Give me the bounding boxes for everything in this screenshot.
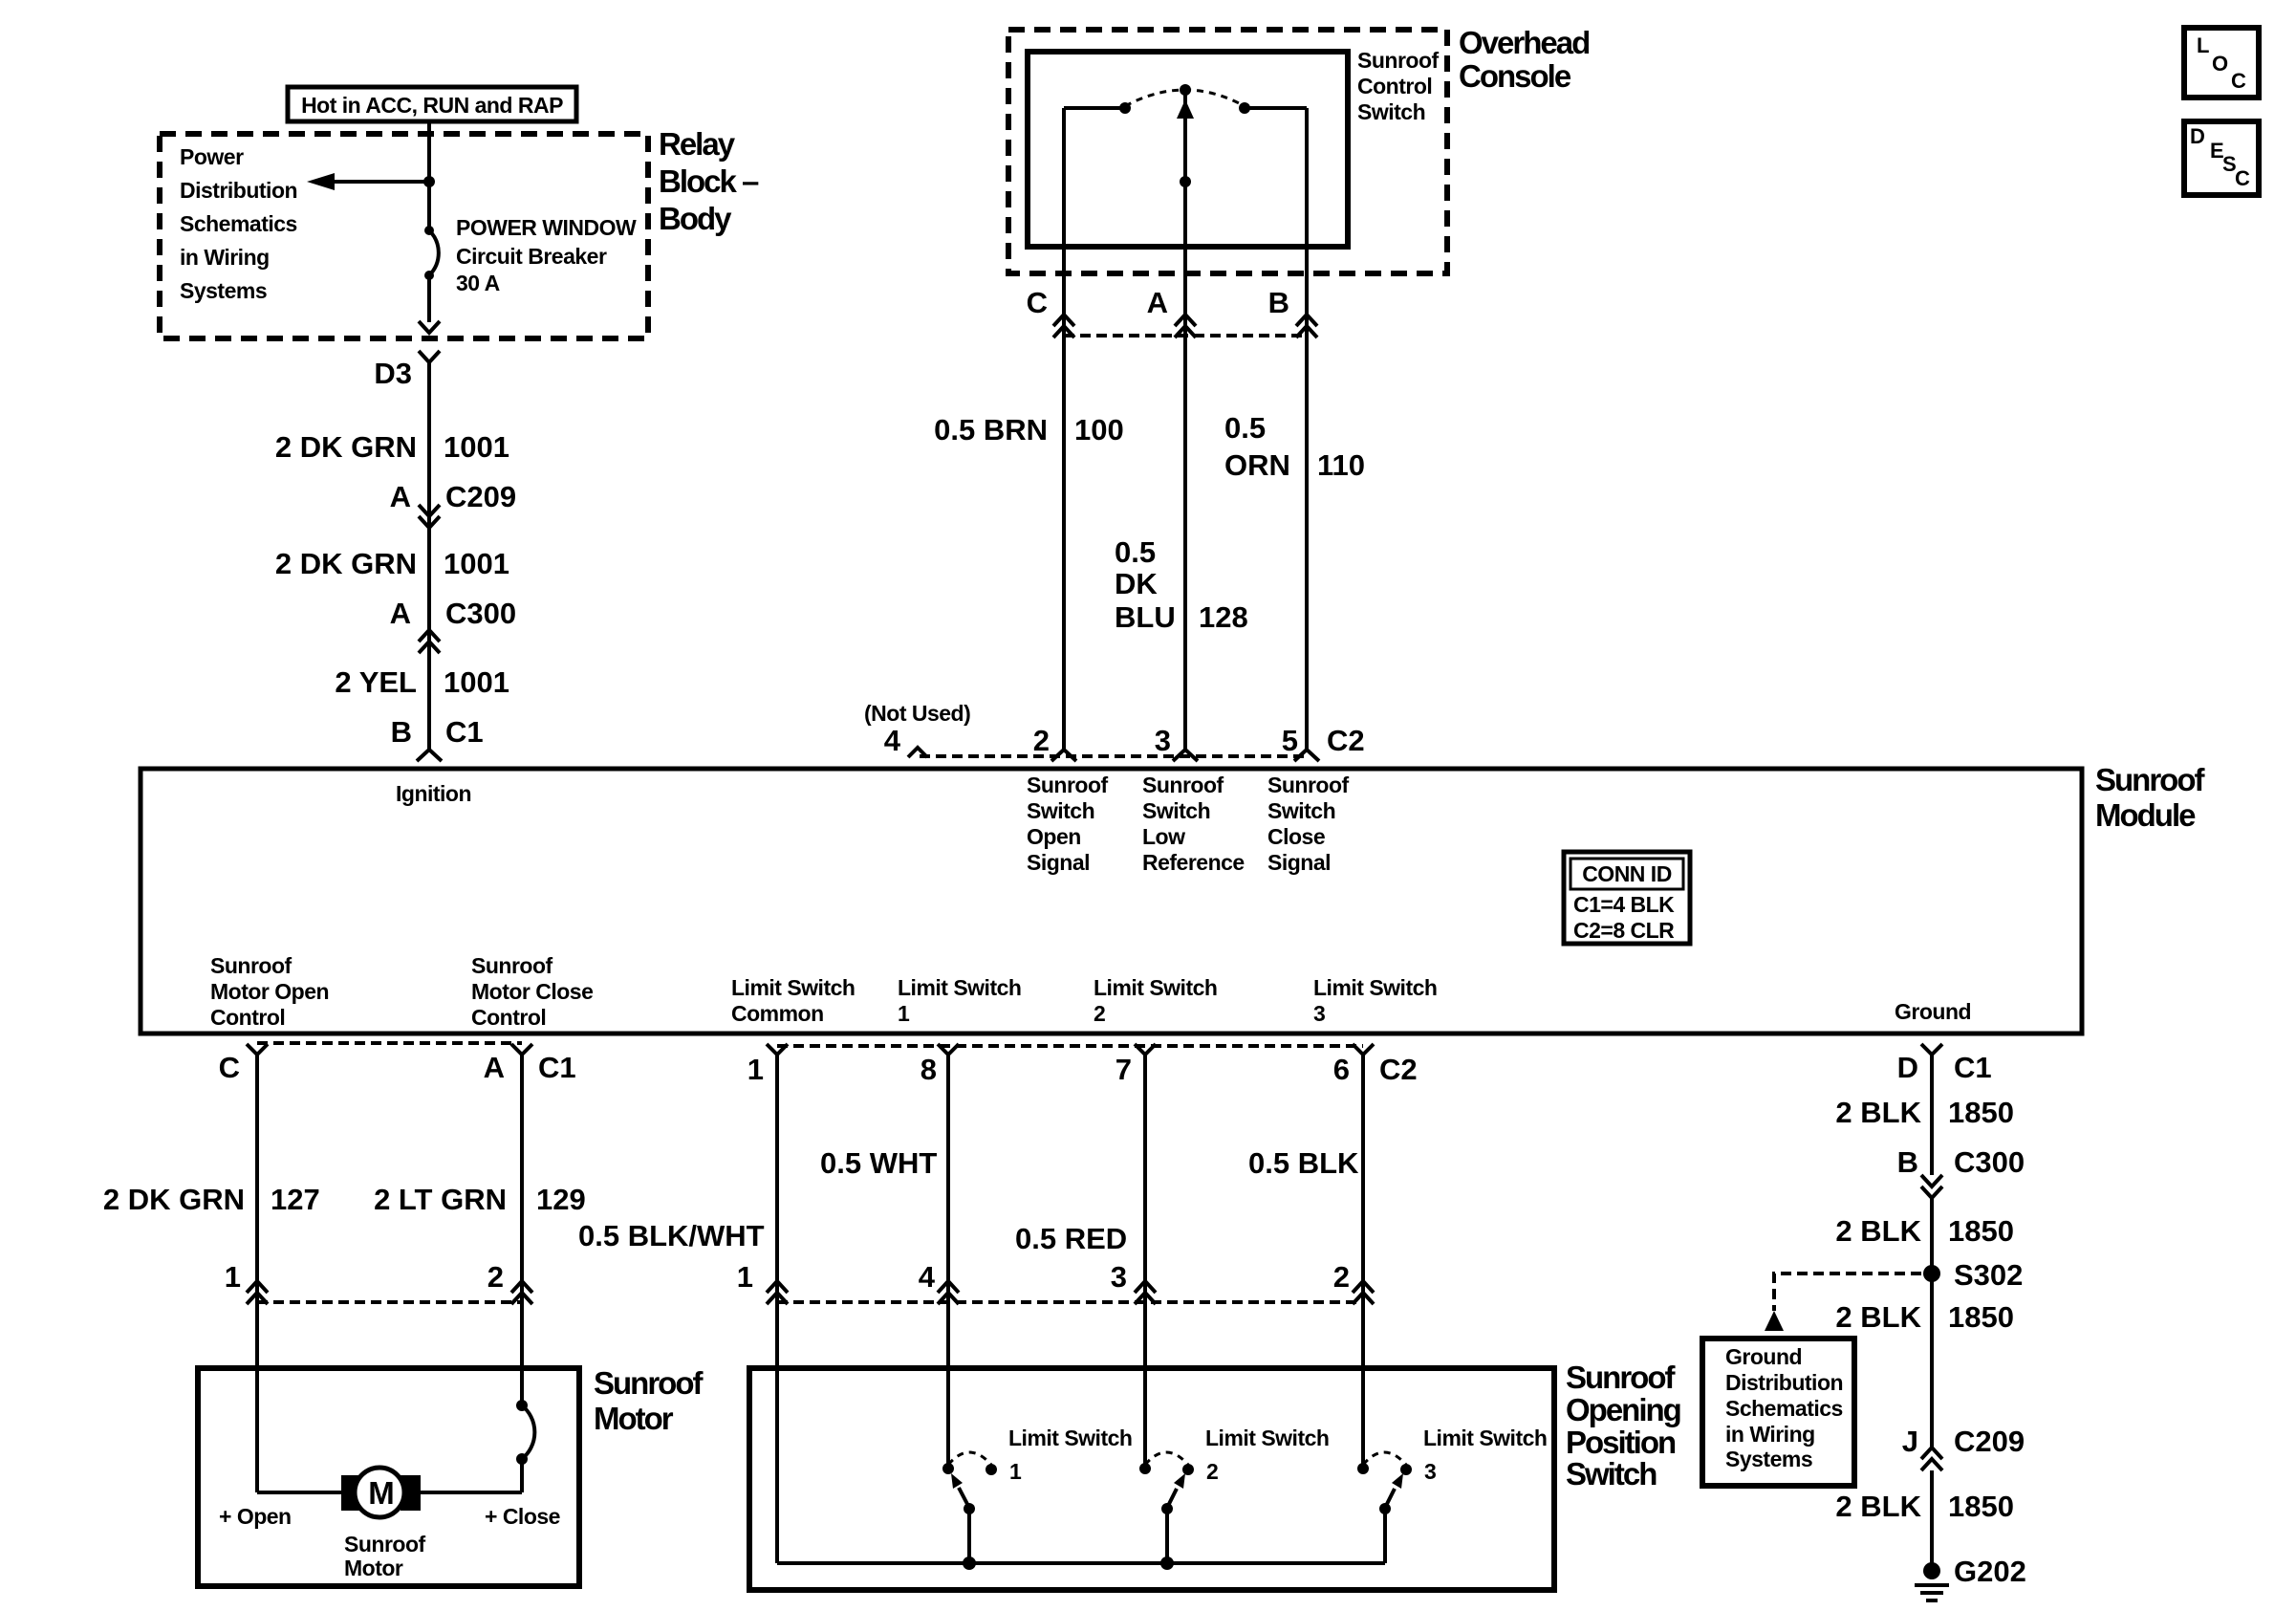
switch wiper dot (1180, 176, 1191, 187)
svg-text:Relay: Relay (659, 126, 736, 162)
svg-text:ORN: ORN (1224, 448, 1290, 482)
motor connector dashed line (257, 1300, 522, 1304)
svg-text:1001: 1001 (444, 430, 509, 464)
svg-text:C1: C1 (445, 715, 484, 749)
svg-text:Sunroof: Sunroof (1027, 773, 1108, 797)
svg-text:POWER WINDOW: POWER WINDOW (456, 215, 637, 240)
svg-text:1850: 1850 (1948, 1300, 2014, 1334)
CONN ID table (1564, 852, 1690, 944)
svg-text:Sunroof: Sunroof (344, 1532, 425, 1557)
svg-text:2: 2 (1333, 1260, 1350, 1294)
switch contact dot right (1239, 102, 1250, 114)
sunroof module box (141, 769, 2082, 1034)
connector chevron at relay box exit (419, 321, 440, 333)
svg-text:3: 3 (1313, 1001, 1325, 1026)
module pin D fork (1921, 1044, 1942, 1055)
svg-text:C209: C209 (1954, 1425, 2025, 1458)
svg-text:Reference: Reference (1142, 850, 1245, 875)
node junction on feed wire (423, 176, 435, 187)
motor feed wire right (416, 1491, 522, 1494)
svg-text:C2: C2 (1379, 1053, 1418, 1086)
svg-text:Motor Open: Motor Open (210, 979, 329, 1004)
svg-text:S302: S302 (1954, 1258, 2023, 1292)
svg-text:CONN ID: CONN ID (1582, 861, 1672, 886)
svg-text:2: 2 (1033, 724, 1050, 757)
ground wire segment 3 (1930, 1470, 1934, 1571)
svg-text:Ground: Ground (1895, 999, 1971, 1024)
svg-text:Open: Open (1027, 824, 1081, 849)
LOC legend box (2184, 28, 2259, 98)
module top connector dashed line (920, 754, 1307, 758)
svg-text:Module: Module (2095, 797, 2196, 833)
svg-text:Systems: Systems (1725, 1447, 1812, 1471)
svg-text:1850: 1850 (1948, 1096, 2014, 1129)
sunroof motor box (198, 1368, 579, 1586)
motor feed wire left (257, 1491, 343, 1494)
svg-text:Sunroof: Sunroof (210, 953, 292, 978)
svg-text:BLU: BLU (1115, 600, 1176, 634)
svg-text:DK: DK (1115, 567, 1158, 600)
module bottom connector dashed line left (257, 1041, 522, 1045)
svg-text:Limit Switch: Limit Switch (1094, 975, 1217, 1000)
svg-text:2 DK GRN: 2 DK GRN (275, 430, 417, 464)
svg-text:Console: Console (1459, 58, 1571, 94)
ground distribution note box (1702, 1339, 1854, 1486)
svg-text:D: D (2190, 124, 2205, 148)
svg-text:+ Open: + Open (219, 1504, 292, 1529)
common bus wire (777, 1561, 1385, 1565)
wire arrow to power distribution (333, 180, 429, 184)
svg-text:B: B (1897, 1145, 1918, 1179)
svg-text:0.5 WHT: 0.5 WHT (820, 1146, 937, 1180)
bus junction switch 2 (1160, 1557, 1174, 1570)
svg-text:128: 128 (1199, 600, 1248, 634)
wire breaker to motor (520, 1459, 524, 1492)
svg-text:Limit Switch: Limit Switch (1008, 1426, 1132, 1450)
svg-text:Block –: Block – (659, 163, 759, 199)
svg-text:Distribution: Distribution (180, 178, 297, 203)
switch dashed actuator arc (1125, 90, 1245, 106)
svg-text:C: C (219, 1051, 240, 1084)
svg-text:A: A (484, 1051, 505, 1084)
svg-text:+ Close: + Close (485, 1504, 560, 1529)
svg-text:0.5 BLK: 0.5 BLK (1248, 1146, 1359, 1180)
splice S302 (1923, 1265, 1940, 1282)
limit switch 2 (1139, 1463, 1151, 1474)
svg-text:100: 100 (1074, 413, 1124, 446)
svg-text:2 LT GRN: 2 LT GRN (374, 1183, 507, 1216)
svg-text:C1=4 BLK: C1=4 BLK (1573, 892, 1675, 917)
svg-text:C: C (2231, 69, 2246, 93)
svg-text:Sunroof: Sunroof (1566, 1360, 1676, 1395)
svg-text:2: 2 (1094, 1001, 1105, 1026)
svg-text:Sunroof: Sunroof (1142, 773, 1224, 797)
svg-text:Sunroof: Sunroof (1267, 773, 1349, 797)
svg-text:C300: C300 (1954, 1145, 2025, 1179)
wire module pin 6 to limit switch 3 (1361, 1055, 1365, 1469)
svg-text:Sunroof: Sunroof (471, 953, 552, 978)
svg-text:D: D (1897, 1051, 1918, 1084)
svg-text:6: 6 (1333, 1053, 1350, 1086)
switch contact dot left (1119, 102, 1131, 114)
svg-text:Common: Common (731, 1001, 824, 1026)
sunroof opening position switch box (749, 1368, 1554, 1590)
svg-text:1001: 1001 (444, 665, 509, 699)
svg-text:127: 127 (271, 1183, 320, 1216)
wire D3 down to module (427, 362, 431, 749)
svg-text:in Wiring: in Wiring (180, 245, 270, 270)
svg-text:2 DK GRN: 2 DK GRN (275, 547, 417, 580)
svg-text:4: 4 (884, 724, 901, 757)
svg-text:C300: C300 (445, 597, 516, 630)
svg-text:0.5: 0.5 (1115, 535, 1156, 569)
svg-text:1: 1 (1009, 1459, 1022, 1484)
svg-text:C1: C1 (1954, 1051, 1992, 1084)
svg-text:2 YEL: 2 YEL (335, 665, 417, 699)
svg-text:Motor: Motor (594, 1401, 674, 1436)
svg-text:Limit Switch: Limit Switch (898, 975, 1021, 1000)
svg-text:C1: C1 (538, 1051, 576, 1084)
svg-text:Control: Control (471, 1005, 546, 1030)
svg-text:A: A (390, 597, 411, 630)
svg-text:Sunroof: Sunroof (594, 1365, 704, 1401)
svg-text:Switch: Switch (1267, 798, 1335, 823)
svg-text:7: 7 (1116, 1053, 1132, 1086)
svg-text:C209: C209 (445, 480, 516, 513)
switch internal wiring left stub (1064, 106, 1125, 110)
svg-text:A: A (390, 480, 411, 513)
svg-text:Control: Control (1357, 74, 1432, 98)
svg-text:Motor: Motor (344, 1556, 403, 1580)
svg-text:Limit Switch: Limit Switch (1313, 975, 1437, 1000)
svg-text:129: 129 (536, 1183, 586, 1216)
wire C console to module pin 2 (1062, 108, 1066, 749)
console connector dashed line (1064, 334, 1307, 337)
wire module pin 1 to common bus (775, 1055, 779, 1563)
svg-text:Ground: Ground (1725, 1344, 1802, 1369)
DESC legend box (2184, 121, 2259, 195)
svg-text:2: 2 (487, 1260, 504, 1294)
svg-text:Schematics: Schematics (1725, 1396, 1843, 1421)
limit switch 1 (942, 1463, 954, 1474)
svg-text:J: J (1902, 1425, 1918, 1458)
svg-text:D3: D3 (374, 357, 412, 390)
svg-text:O: O (2212, 52, 2228, 76)
switch internal wiring right stub (1245, 106, 1307, 110)
svg-text:3: 3 (1155, 724, 1171, 757)
svg-text:3: 3 (1424, 1459, 1436, 1484)
svg-text:Body: Body (659, 201, 732, 236)
svg-text:Distribution: Distribution (1725, 1370, 1843, 1395)
svg-text:C2: C2 (1327, 724, 1365, 757)
limit switch 3 (1357, 1463, 1369, 1474)
svg-text:0.5 BRN: 0.5 BRN (934, 413, 1048, 446)
svg-text:M: M (368, 1475, 393, 1511)
ground G202 (1923, 1562, 1940, 1579)
svg-text:8: 8 (921, 1053, 937, 1086)
motor internal breaker top dot (516, 1400, 528, 1411)
svg-text:Sunroof: Sunroof (2095, 762, 2205, 797)
svg-text:Overhead: Overhead (1459, 25, 1589, 60)
svg-text:Low: Low (1142, 824, 1185, 849)
svg-text:Close: Close (1267, 824, 1325, 849)
svg-text:C: C (1027, 286, 1048, 319)
svg-text:A: A (1147, 286, 1168, 319)
wire module pin 8 to limit switch 1 (946, 1055, 950, 1469)
svg-text:Control: Control (210, 1005, 285, 1030)
svg-text:1: 1 (737, 1260, 753, 1294)
circuit breaker POWER WINDOW 30 A (424, 226, 434, 235)
svg-text:2 BLK: 2 BLK (1835, 1490, 1921, 1523)
svg-text:Signal: Signal (1027, 850, 1090, 875)
svg-text:Sunroof: Sunroof (1357, 48, 1439, 73)
svg-text:0.5: 0.5 (1224, 411, 1266, 445)
svg-text:Switch: Switch (1357, 99, 1425, 124)
svg-text:in Wiring: in Wiring (1725, 1422, 1815, 1447)
ground wire segment 2 (1930, 1198, 1934, 1448)
limit connector dashed line (777, 1300, 1363, 1304)
wire module pin 7 to limit switch 2 (1143, 1055, 1147, 1469)
svg-text:Switch: Switch (1142, 798, 1210, 823)
svg-text:2 BLK: 2 BLK (1835, 1214, 1921, 1248)
svg-text:2: 2 (1206, 1459, 1218, 1484)
power feed box "Hot in ACC, RUN and RAP" (288, 87, 576, 121)
svg-text:L: L (2197, 33, 2209, 57)
wire breaker to relay box edge (427, 275, 431, 322)
svg-text:3: 3 (1111, 1260, 1127, 1294)
wire module pin A to motor (520, 1055, 524, 1405)
svg-text:1: 1 (225, 1260, 241, 1294)
svg-text:Circuit Breaker: Circuit Breaker (456, 244, 607, 269)
svg-text:2 BLK: 2 BLK (1835, 1300, 1921, 1334)
svg-text:Position: Position (1566, 1425, 1676, 1460)
svg-text:0.5 RED: 0.5 RED (1015, 1222, 1127, 1255)
module bottom connector dashed line mid (777, 1044, 1363, 1048)
svg-text:Systems: Systems (180, 278, 267, 303)
wire A console to module pin 3 (1183, 90, 1187, 749)
sunroof control switch box (1028, 52, 1348, 247)
svg-text:C: C (2235, 166, 2250, 190)
svg-text:1: 1 (898, 1001, 910, 1026)
overhead console dashed box (1008, 30, 1447, 273)
svg-text:Motor Close: Motor Close (471, 979, 593, 1004)
svg-text:Switch: Switch (1566, 1456, 1657, 1491)
motor internal breaker arc (522, 1405, 534, 1459)
svg-text:Power: Power (180, 144, 244, 169)
svg-text:Ignition: Ignition (396, 781, 471, 806)
fork into module ignition pin (417, 750, 442, 761)
svg-text:G202: G202 (1954, 1555, 2026, 1588)
svg-text:1: 1 (747, 1053, 764, 1086)
svg-text:Switch: Switch (1027, 798, 1094, 823)
relay block dashed box (160, 134, 648, 338)
ground wire segment 1 (1930, 1055, 1934, 1175)
motor M symbol (341, 1475, 361, 1511)
svg-text:Limit Switch: Limit Switch (1205, 1426, 1329, 1450)
svg-text:1001: 1001 (444, 547, 509, 580)
motor internal breaker bottom dot (516, 1453, 528, 1465)
svg-text:Signal: Signal (1267, 850, 1331, 875)
wire B console to module pin 5 (1305, 108, 1309, 749)
svg-text:Schematics: Schematics (180, 211, 297, 236)
svg-text:2 BLK: 2 BLK (1835, 1096, 1921, 1129)
svg-text:4: 4 (919, 1260, 936, 1294)
svg-text:Hot in ACC, RUN and RAP: Hot in ACC, RUN and RAP (301, 93, 563, 118)
wire module pin C to motor (255, 1055, 259, 1492)
bus junction switch 1 (963, 1557, 976, 1570)
svg-text:110: 110 (1317, 448, 1365, 482)
svg-text:(Not Used): (Not Used) (864, 701, 970, 726)
wire from hot feed down (427, 121, 431, 230)
svg-text:Limit Switch: Limit Switch (1423, 1426, 1547, 1450)
dashed branch to ground distribution (1774, 1274, 1921, 1311)
svg-text:C2=8 CLR: C2=8 CLR (1573, 918, 1675, 943)
svg-text:Opening: Opening (1566, 1392, 1680, 1427)
svg-text:5: 5 (1282, 724, 1298, 757)
svg-text:1850: 1850 (1948, 1214, 2014, 1248)
svg-text:30 A: 30 A (456, 271, 500, 295)
svg-text:1850: 1850 (1948, 1490, 2014, 1523)
svg-text:0.5 BLK/WHT: 0.5 BLK/WHT (578, 1219, 765, 1252)
svg-text:2 DK GRN: 2 DK GRN (103, 1183, 245, 1216)
svg-text:B: B (1268, 286, 1289, 319)
svg-text:B: B (391, 715, 412, 749)
svg-text:Limit Switch: Limit Switch (731, 975, 855, 1000)
switch common dot top (1180, 84, 1191, 96)
switch wiper arrow (1177, 99, 1194, 119)
